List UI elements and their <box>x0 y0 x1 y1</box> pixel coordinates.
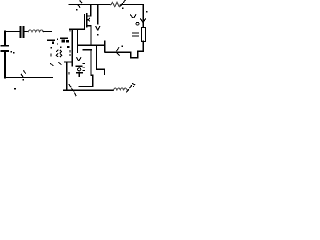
dot under R1 arrow <box>122 8 124 10</box>
wire annotation vertical from rail <box>97 5 99 25</box>
dot of L2 arrow <box>133 86 134 87</box>
dot far bottom-left <box>14 88 16 90</box>
arrow dashed chevron above crystal <box>77 58 81 61</box>
wire box bottom down <box>142 41 144 51</box>
arrow dashed chevron near right wire <box>131 15 136 18</box>
transistor Q1 source wire down <box>90 26 92 46</box>
wire jog right <box>91 74 93 76</box>
wire bottom rail right <box>64 89 114 91</box>
arrow dashed left-pointing on mid wire <box>117 48 119 56</box>
dot near corner wire <box>146 11 148 13</box>
annotation small circle <box>136 22 139 25</box>
capacitor C2 plate top <box>1 45 8 47</box>
wire C1 to L1 <box>24 31 28 33</box>
dashes right of crystal <box>83 64 85 71</box>
wire stub vertical right <box>104 41 106 52</box>
capacitor C2 plate bottom <box>1 50 8 52</box>
arrowhead dashed down <box>96 26 100 30</box>
dots right of C2 <box>10 51 12 52</box>
wire crystal bottom stub <box>78 74 80 77</box>
transistor Q1 drain stub <box>87 15 91 17</box>
inner dash column <box>60 46 61 48</box>
crystal Y1 symbol: bar, circle, bar <box>77 65 82 67</box>
transistor Q1 arrow <box>88 18 90 21</box>
transistor Q1 channel bar <box>86 14 88 27</box>
capacitor C3 lower plate <box>83 49 91 51</box>
right dash column <box>69 50 70 53</box>
wire down to link <box>92 75 94 86</box>
wire node gate down to crystal <box>77 29 79 52</box>
wire C2 down <box>4 51 6 78</box>
wire mid jog horizontal <box>97 68 105 70</box>
transformer T1 tick to wire <box>66 40 69 42</box>
arrow dashed over L2 <box>127 84 135 92</box>
inductor L2 coil <box>114 88 128 90</box>
left winding dashes column <box>50 47 52 49</box>
wire gate horizontal <box>70 28 84 30</box>
wire left-mid vertical to bottom rail <box>66 62 68 90</box>
wire left branch vertical <box>4 32 6 46</box>
wire input top-left horizontal <box>5 31 20 33</box>
transistor Q1 drain wire up <box>90 5 92 17</box>
middle dash column <box>57 38 58 40</box>
dot of down arrow <box>97 34 99 36</box>
transistor Q1 source stub <box>87 25 91 27</box>
dash near corner <box>68 72 69 75</box>
tick gate end <box>70 30 71 32</box>
wire mid vertical <box>96 45 98 69</box>
transistor Q1 gate bar <box>83 15 85 28</box>
resistor R1 zigzag <box>111 2 121 6</box>
wire C3 down <box>90 50 92 75</box>
capacitor C1 plates <box>20 27 22 37</box>
transformer T1 left winding T mark <box>48 39 54 41</box>
wire jog horizontal <box>65 61 73 63</box>
arrow dashed near left rail <box>21 71 25 77</box>
wire source net horizontal <box>78 44 105 46</box>
dot near left arrow <box>122 46 124 48</box>
component box X1 <box>141 28 145 42</box>
transformer T1 right winding square <box>61 37 68 39</box>
arrow dashed bottom-left diagonal <box>69 85 76 96</box>
dashes below transformer <box>51 62 62 65</box>
annotation equals sign <box>133 33 139 36</box>
right small square <box>67 46 69 48</box>
wire bottom-left rail <box>5 77 52 79</box>
arrow dashed top gate annotation <box>78 1 82 8</box>
wire vertical from gate to jog <box>71 29 73 66</box>
wire L1 to gap end <box>43 31 51 33</box>
arrow dashed over R1 <box>121 0 126 6</box>
wire link horizontal lower <box>79 86 93 88</box>
wire right vertical top <box>142 5 144 28</box>
wire lower stub vertical <box>103 69 105 74</box>
arrowhead on right wire <box>141 19 146 22</box>
dot of gate annotation <box>76 9 78 11</box>
wire top rail <box>69 4 143 6</box>
inductor L1 coil <box>28 30 43 32</box>
wire staircase right <box>105 51 143 58</box>
